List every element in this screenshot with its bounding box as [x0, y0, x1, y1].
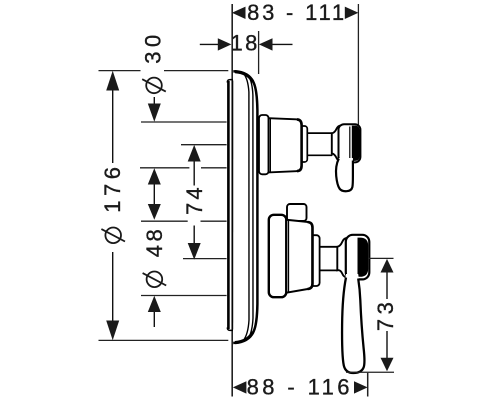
extension line upper handle end x=358.4 — [357, 4, 359, 127]
arrow D48 bottom (points up) — [148, 296, 161, 312]
dimension D30/D48 shared vertical line x=154.3 — [153, 97, 155, 104]
dome face highlight line inner — [243, 73, 249, 340]
ext line D176 top y=70.6 — [99, 70, 141, 72]
dome thick bottom edge — [235, 332, 253, 343]
lower handle ferrule — [337, 238, 347, 278]
lower valve safety stop knob — [287, 204, 307, 221]
svg-text:30: 30 — [141, 30, 166, 63]
upper hub dark cap — [352, 126, 360, 161]
svg-text:176: 176 — [100, 162, 125, 212]
lower valve flange — [269, 215, 287, 297]
dome thick top edge — [235, 72, 253, 82]
ext line D48 bottom y=295.5 — [141, 295, 227, 297]
svg-text:88 - 116: 88 - 116 — [247, 375, 353, 400]
upper handle lever arm fill — [336, 158, 353, 191]
ext line 74 bottom y=258.6 — [183, 258, 227, 260]
lower handle hub — [346, 235, 370, 280]
escutcheon rim top cap — [227, 80, 233, 83]
upper handle hub — [339, 124, 361, 162]
lower sleeve end ring — [311, 235, 320, 286]
lower hub dark cap — [358, 238, 369, 277]
dimension 88-116 arrows — [233, 381, 368, 393]
escutcheon rim right edge — [232, 81, 234, 330]
upper sleeve right edge thick — [297, 119, 302, 171]
dimension 83-111 line and arrows — [232, 7, 359, 19]
lower valve sleeve body — [286, 220, 312, 293]
dimension 73 vertical line x=387 — [386, 272, 388, 299]
arrow D48 top (points down) — [148, 204, 161, 220]
svg-text:73: 73 — [373, 298, 398, 331]
ext line D30 top y=122 — [141, 121, 227, 123]
dimension 74 vertical line x=194.2 — [193, 160, 195, 186]
svg-text:83 - 111: 83 - 111 — [247, 0, 347, 25]
upper sleeve step line — [269, 119, 271, 172]
upper handle lever arm outline — [336, 159, 353, 192]
diameter symbol for 48 — [143, 272, 167, 288]
upper hub inner line — [349, 127, 351, 161]
upper stem — [307, 132, 332, 134]
extension line wall plane x=232 — [231, 4, 233, 397]
ext line 73 bottom y=372.25 right side — [346, 371, 394, 373]
ext line D176 bottom y=340.4 — [99, 339, 229, 341]
ext line 74 top y=144.7 — [181, 144, 227, 146]
escutcheon rim bottom cap — [227, 328, 233, 331]
arrow D30 bottom (points up) — [148, 168, 161, 184]
svg-text:18: 18 — [231, 31, 260, 56]
upper sleeve end ring — [300, 126, 307, 162]
svg-text:74: 74 — [182, 184, 207, 215]
dimension D176 vertical line — [112, 90, 114, 163]
escutcheon dome fill — [233, 71, 257, 343]
lower sleeve step line — [288, 220, 290, 292]
upper valve sleeve body — [269, 118, 302, 172]
lower handle lever arm outline — [342, 278, 364, 374]
upper handle ferrule — [332, 125, 341, 161]
escutcheon dome silhouette — [233, 71, 257, 343]
diameter symbol for 176 — [101, 228, 125, 244]
ext line D30 bottom y=167.8 — [140, 167, 189, 169]
arrow D30 top (points down) — [148, 104, 161, 122]
upper valve flange — [259, 115, 269, 174]
ext line 73 top y=258.4 right side — [369, 257, 394, 259]
ext line D48 top y=221.2 — [141, 220, 188, 222]
diameter symbol for 30 — [142, 78, 166, 94]
lower sleeve right edge thick — [308, 222, 313, 289]
escutcheon rim left edge — [227, 81, 230, 329]
extension line dome front x=258.6 — [258, 31, 260, 74]
dimension 18 leaders and arrows — [200, 43, 218, 45]
svg-text:48: 48 — [142, 226, 167, 257]
lower stem — [320, 246, 338, 248]
extension line lower handle end x=367.7 — [367, 373, 369, 397]
dome face highlight line outer — [248, 75, 253, 339]
lower handle lever arm fill — [342, 274, 364, 373]
